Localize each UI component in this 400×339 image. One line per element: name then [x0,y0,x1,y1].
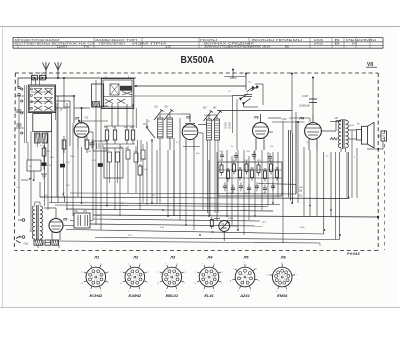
svg-text:Пр1: Пр1 [24,241,29,245]
svg-text:С60: С60 [74,211,79,213]
svg-text:ЕСН42: ЕСН42 [90,293,103,298]
svg-text:Л5: Л5 [243,255,250,260]
svg-text:В: В [335,42,341,46]
svg-text:6 ПОДСТРОЕЧНИКИ: 6 ПОДСТРОЕЧНИКИ [15,38,60,42]
svg-text:ЕМ34: ЕМ34 [277,293,288,298]
wire left unit verticals [31,131,52,230]
tube base V5 АZ41 [230,255,260,299]
svg-text:к: к [157,271,158,273]
svg-text:ЦИЛ: ЦИЛ [57,46,68,49]
antenna A2 [55,62,62,79]
svg-text:Л3: Л3 [169,255,176,260]
svg-text:10к: 10к [270,146,273,148]
output transformer T3 [321,117,354,152]
svg-text:≈6,3в: ≈6,3в [63,105,70,109]
svg-text:220к: 220к [70,156,74,158]
wire V2 anode [174,114,203,220]
potentiometer R15 volume [210,217,238,241]
svg-text:С58: С58 [298,191,303,193]
svg-text:ДОН: ДОН [349,125,354,127]
capacitor C47 coupling [272,77,317,204]
svg-text:ПОЛН: ПОЛН [200,38,217,42]
tube base V2 ЕАФ42 [120,255,149,299]
svg-text:Л5: Л5 [62,218,67,222]
component value labels [44,121,356,237]
cathode resistors R1 C8 [62,136,94,153]
svg-text:РЕЖИМЫ: РЕЖИМЫ [346,38,378,42]
wire stage vertical drops [78,118,350,243]
svg-text:Л3: Л3 [253,116,258,120]
decoupling C10 C15 C19 [17,103,108,198]
svg-text:R23: R23 [298,196,303,198]
svg-text:к: к [214,290,215,292]
svg-text:ЕВС41: ЕВС41 [166,293,178,298]
svg-text:BX500A: BX500A [181,55,215,66]
jack socket [378,131,386,141]
svg-text:ИЗ: ИЗ [314,38,324,42]
tube V5 AZ41 rectifier [49,210,67,240]
svg-text:к: к [120,271,121,273]
padder capacitors C11 C12 [104,144,145,203]
svg-text:1М: 1М [88,151,91,153]
tube base V6 ЕМ34 [267,255,297,299]
svg-text:0,5М: 0,5М [228,218,233,220]
switch S1 wave change [140,119,155,205]
drawing number P0946 [347,252,360,256]
svg-text:Р0946: Р0946 [347,252,360,256]
svg-text:ЕАФ42: ЕАФ42 [129,293,142,298]
svg-text:Ф2: Ф2 [165,106,169,109]
svg-text:Л4: Л4 [299,117,304,121]
sheet number VII [366,62,377,68]
tuning gang C1 C2 [217,69,293,151]
svg-text:к: к [101,290,102,292]
svg-text:Л2: Л2 [132,255,139,260]
svg-text:437: 437 [335,117,340,120]
svg-text:Л2: Л2 [185,116,190,120]
tube V3 EBC41 det AF [253,114,274,150]
oscillator coil unit L7-L10 [92,77,134,109]
tube V4 EL41 output [299,114,322,150]
svg-text:В: В [335,38,341,42]
svg-text:Ф1: Ф1 [155,106,159,109]
electrolytic capacitors C60 C61 [70,211,93,228]
wire V1 anode grid [74,107,108,122]
svg-text:Л4: Л4 [207,255,214,260]
wire rectifier mains [38,208,96,248]
svg-text:к: к [81,271,82,273]
wire top bus [18,77,136,107]
coil unit L1-L6 band switch [21,78,56,147]
antenna terminal blocks [31,73,46,80]
svg-text:Н: Н [352,42,357,46]
svg-text:Ф4: Ф4 [213,107,217,110]
chassis dashed border [14,73,384,251]
svg-text:ИЗ: ИЗ [314,42,324,46]
svg-text:ИЗМ ПРИ: ИЗМ ПРИ [132,42,166,46]
resistor chain R7 [138,140,148,210]
tube V1 ECH42 mixer [74,112,93,147]
svg-text:ЗАМЕЧЕНО ТИП: ЗАМЕЧЕНО ТИП [95,38,137,42]
svg-text:к: к [233,268,234,270]
tube V2 EAF42 IF amp [182,114,207,150]
svg-text:0,047: 0,047 [302,94,309,98]
svg-text:к: к [267,274,268,276]
svg-text:ПЕРЕКЛЮЧЕН: ПЕРЕКЛЮЧЕН [99,42,125,46]
tube base V4 ЕL41 [195,255,224,299]
svg-text:АZ41: АZ41 [239,293,250,298]
svg-text:ЕL41: ЕL41 [204,293,213,298]
IF transformer T2 [203,107,231,217]
svg-text:С61: С61 [83,211,88,213]
svg-text:Ф3: Ф3 [203,107,207,110]
svg-text:ВОЛНЫ ПРИЕМН: ВОЛНЫ ПРИЕМН [252,38,302,42]
wire C54 AVC [268,117,310,160]
svg-text:10000пФ: 10000пФ [299,104,310,108]
svg-text:Л6: Л6 [280,255,287,260]
tube base V3 ЕВС41 [157,255,186,299]
title BX500A [181,55,215,66]
wire HT heater buses [40,112,379,246]
svg-text:Л1: Л1 [93,255,100,260]
svg-text:к: к [195,271,196,273]
svg-text:30000: 30000 [224,122,227,129]
svg-text:ЗАКАЗ ПОДКЛЮЧЕНИЯХ ЖИ: ЗАКАЗ ПОДКЛЮЧЕНИЯХ ЖИ [204,46,271,49]
power transformer T4 [16,202,43,243]
antenna A1 [43,62,50,79]
loudspeaker [352,122,383,152]
tube base V1 ЕСН42 [81,255,110,299]
wire mid verticals A [58,80,108,230]
svg-text:к: к [177,290,178,292]
label heater 6.3v [60,105,70,111]
svg-text:Л1: Л1 [74,117,79,121]
svg-text:С13: С13 [84,118,89,120]
svg-text:к: к [140,290,141,292]
oscillator network R3 R4 R5 C9 [104,126,135,144]
svg-text:С54: С54 [282,117,287,121]
speaker return wires [299,148,357,198]
svg-text:5к: 5к [231,146,233,148]
title block table [13,38,383,49]
IF transformer T1 [154,106,181,204]
wire L1 unit to V1 [56,95,75,146]
fuse Pr1 mains selector [24,240,59,245]
terminal strip left [15,86,24,216]
wire osc unit leads [112,77,246,129]
svg-text:30000: 30000 [228,122,231,129]
detector AGC network [218,151,282,196]
net label A [61,192,65,202]
